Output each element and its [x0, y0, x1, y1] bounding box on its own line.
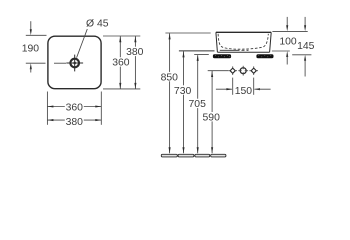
extension line bottom right of square	[103, 88, 140, 90]
dimension 705	[188, 55, 207, 153]
dimension 190	[22, 21, 66, 72]
drain symbol circle	[238, 66, 248, 76]
svg-text:730: 730	[174, 86, 192, 97]
svg-text:190: 190	[22, 44, 40, 55]
svg-text:145: 145	[297, 41, 315, 52]
dimension 380 vertical	[125, 36, 144, 89]
extension line basin underside right	[272, 50, 290, 52]
inner drain ledge line	[220, 49, 249, 51]
extension line bracket underside right	[292, 54, 311, 56]
svg-text:380: 380	[66, 117, 84, 128]
svg-text:360: 360	[112, 58, 130, 69]
faucet hole symbol	[66, 55, 83, 72]
svg-text:590: 590	[203, 113, 221, 124]
inner bowl dashed line	[218, 34, 268, 49]
rim extension line left	[165, 32, 210, 34]
left mounting bracket	[213, 54, 231, 58]
extension line bottom left of square	[46, 92, 48, 125]
dimension 145	[304, 17, 306, 77]
dimension 360 vertical	[111, 36, 130, 89]
fixing hole diamond left	[228, 66, 237, 75]
svg-text:850: 850	[161, 72, 179, 83]
fixing hole diamond right	[249, 66, 258, 75]
dimension 380 horizontal	[47, 116, 101, 128]
right mounting bracket	[256, 54, 273, 58]
extension line under basin left	[179, 50, 215, 52]
rim extension line right	[272, 30, 307, 32]
svg-text:100: 100	[279, 36, 297, 47]
extension line fixing row	[208, 70, 229, 72]
extension line top right of square	[103, 35, 140, 37]
dimension 850	[160, 33, 179, 153]
basin top view outline	[48, 36, 101, 88]
dimension 100	[286, 17, 288, 65]
svg-text:705: 705	[189, 99, 207, 110]
extension line below left diamond	[232, 78, 234, 95]
floor hatched bar	[161, 154, 226, 157]
svg-text:Ø 45: Ø 45	[86, 19, 109, 30]
leader line for diameter 45	[77, 29, 88, 58]
svg-text:380: 380	[126, 47, 144, 58]
dimension 150	[216, 86, 271, 97]
basin side view outline	[216, 32, 271, 52]
extension line bottom right below square	[100, 92, 102, 125]
extension line bracket underside left	[194, 54, 209, 56]
dimension 590	[202, 71, 221, 153]
dimension 360 horizontal	[47, 102, 101, 113]
extension line below right diamond	[253, 78, 255, 95]
svg-text:150: 150	[235, 86, 253, 97]
dimension 730	[173, 51, 192, 153]
svg-text:360: 360	[66, 103, 84, 114]
